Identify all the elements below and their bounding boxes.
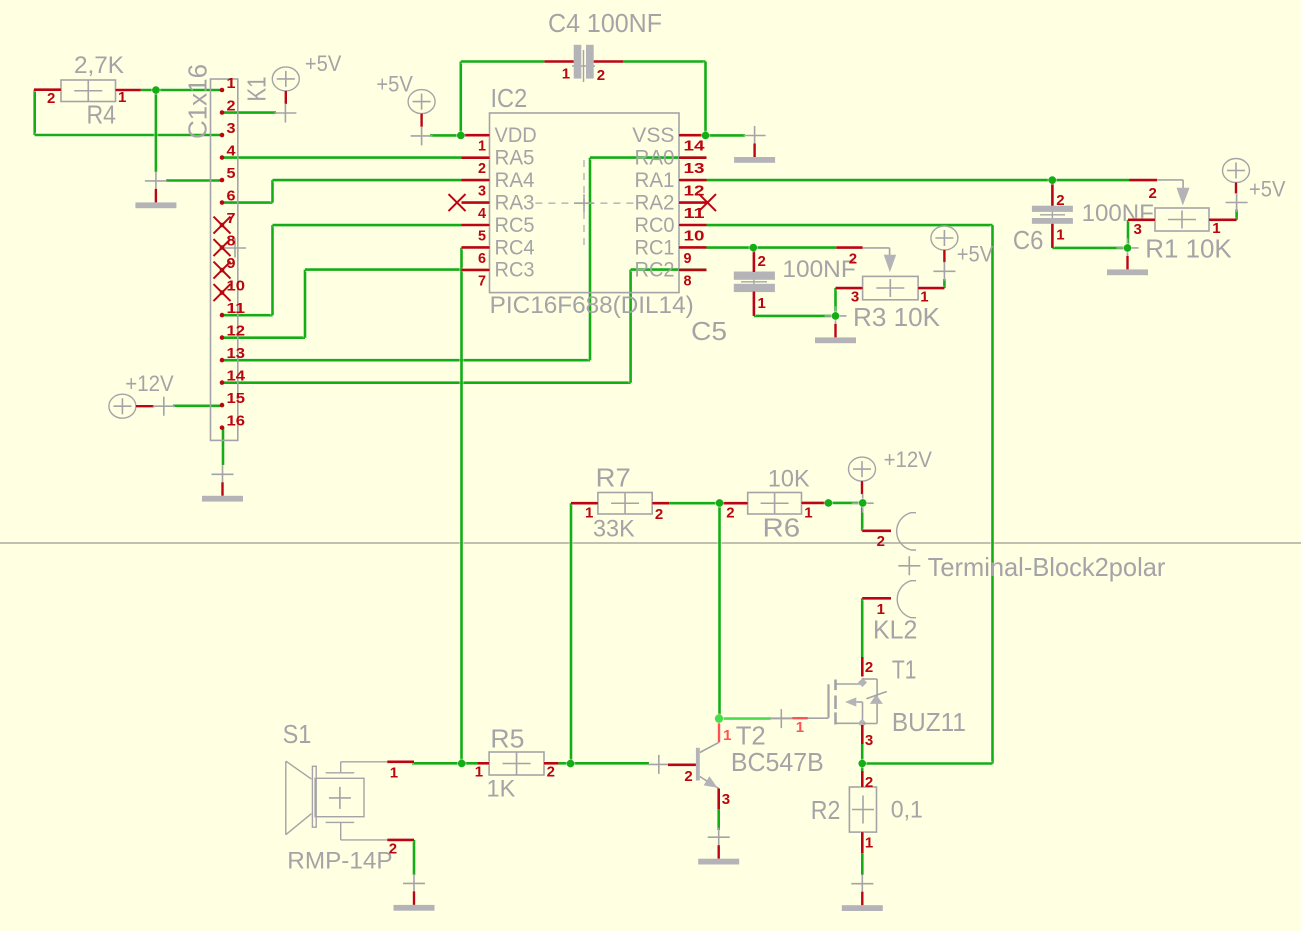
svg-text:9: 9 (684, 250, 692, 267)
IC2 left pin 7 RC3 (462, 259, 535, 290)
wire highlighted T1 gate net (719, 716, 771, 720)
svg-text:RC5: RC5 (495, 214, 535, 237)
junction T1 source/R2 (857, 759, 867, 769)
svg-text:2: 2 (47, 90, 55, 107)
wire RC1 to C5 and R3 wiper (707, 245, 837, 249)
svg-text:2: 2 (865, 659, 873, 676)
svg-text:0,1: 0,1 (891, 797, 923, 824)
svg-text:7: 7 (478, 272, 486, 289)
K1 pin 5 (220, 165, 236, 182)
svg-text:2: 2 (877, 533, 885, 550)
wire R3 pin1 to +5V (942, 279, 946, 288)
wire R7 pin1 down to R5 node (569, 503, 573, 763)
wire T1 source to node (860, 744, 864, 764)
svg-text:2,7K: 2,7K (74, 52, 124, 79)
svg-text:RC4: RC4 (495, 236, 535, 259)
svg-text:15: 15 (227, 390, 246, 407)
svg-text:VDD: VDD (495, 124, 537, 147)
svg-text:2: 2 (849, 251, 857, 268)
svg-text:+5V: +5V (376, 72, 413, 97)
svg-text:C4 100NF: C4 100NF (548, 8, 662, 38)
svg-text:RA5: RA5 (495, 146, 535, 169)
wire node to R2 pin2 (860, 764, 864, 772)
wire R3 pin3 to ground node (833, 288, 837, 316)
svg-text:1: 1 (562, 66, 570, 83)
junction VSS (701, 131, 711, 141)
svg-text:1: 1 (585, 505, 593, 522)
svg-text:6: 6 (227, 188, 236, 205)
wire K1 pin12 to RC3 (222, 270, 462, 338)
svg-text:+5V: +5V (957, 242, 994, 267)
junction R5/T2 (566, 759, 576, 769)
svg-text:4: 4 (478, 205, 487, 222)
svg-text:Terminal-Block2polar: Terminal-Block2polar (928, 552, 1166, 582)
svg-text:6: 6 (478, 250, 486, 267)
K1 pin 7 (214, 210, 236, 234)
svg-text:RMP-14P: RMP-14P (287, 848, 392, 875)
wire S1 pin2 to ground (412, 840, 416, 875)
svg-text:13: 13 (684, 160, 705, 177)
T1 gate pin highlighted (771, 717, 829, 719)
svg-text:1: 1 (758, 295, 766, 312)
wire VSS to ground (706, 133, 746, 137)
svg-text:2: 2 (389, 841, 397, 858)
ground GND at C5/R3 (815, 306, 856, 343)
speaker S1 RMP-14P (283, 719, 414, 874)
K1 pin 6 (220, 188, 236, 205)
trimmer R1 10K (1128, 180, 1237, 264)
transistor T1 BUZ11 (770, 654, 966, 749)
K1 pin 15 (220, 390, 245, 407)
ground GND at K1 pin16 (202, 465, 243, 502)
resistor R6 10K (722, 466, 827, 543)
svg-text:16: 16 (227, 413, 246, 430)
supply +5V at K1 pin2 (272, 51, 341, 123)
svg-text:1: 1 (475, 763, 483, 780)
IC2 left pin 5 RC5 (462, 214, 535, 245)
svg-text:+5V: +5V (305, 51, 342, 76)
junction C5/R3 ground (831, 311, 841, 321)
svg-text:PIC16F688(DIL14): PIC16F688(DIL14) (490, 292, 694, 319)
IC2 left pin 2 RA5 (462, 146, 535, 177)
IC2 right pin 9 RC1 (635, 236, 707, 267)
svg-text:RA0: RA0 (635, 146, 675, 169)
svg-text:R1 10K: R1 10K (1145, 234, 1232, 264)
svg-text:T2: T2 (736, 721, 766, 751)
svg-text:5: 5 (227, 165, 236, 182)
svg-text:+12V: +12V (125, 371, 174, 396)
K1 pin 13 (220, 345, 245, 362)
svg-text:KL2: KL2 (873, 615, 917, 645)
wire junction down to T1 gate node (717, 503, 721, 718)
svg-text:R2: R2 (811, 795, 841, 825)
svg-text:3: 3 (1134, 221, 1142, 238)
svg-text:4: 4 (227, 143, 237, 160)
svg-text:C5: C5 (691, 316, 727, 346)
K1 pin 1 (220, 75, 236, 92)
wire C6 pin1 to ground node (1052, 246, 1127, 250)
svg-text:33K: 33K (593, 515, 635, 542)
svg-text:1: 1 (1212, 220, 1220, 237)
svg-text:10K: 10K (768, 466, 810, 493)
IC2 right pin 13 RA0 (635, 146, 707, 177)
wire T2 emitter to ground (717, 809, 721, 830)
K1 pin 11 (220, 300, 245, 317)
svg-text:3: 3 (851, 289, 859, 306)
svg-text:RC3: RC3 (495, 259, 535, 282)
svg-text:IC2: IC2 (491, 83, 528, 113)
svg-text:RA4: RA4 (495, 169, 535, 192)
junction RA1/C6 (1048, 175, 1058, 185)
svg-text:100NF: 100NF (782, 256, 855, 283)
svg-text:R5: R5 (490, 723, 524, 753)
trimmer R3 10K (836, 248, 945, 332)
svg-text:10: 10 (684, 228, 705, 245)
svg-text:8: 8 (684, 272, 692, 289)
wire R4 pin1 to K1 pin1 (141, 88, 222, 92)
wire KL2 pin1 to T1 drain (860, 598, 864, 657)
wire K1 pin13 to RA0 (222, 158, 707, 361)
wire R4 pin2 to K1 pin3 (35, 90, 222, 135)
capacitor C6 100NF (1013, 180, 1154, 255)
svg-text:2: 2 (227, 98, 236, 115)
svg-text:1: 1 (227, 75, 236, 92)
svg-text:2: 2 (684, 768, 692, 785)
junction R4/K1 pin1 (151, 85, 161, 95)
wire K1 pin6 to RA4 (222, 180, 462, 203)
IC2 right pin 8 RC2 (635, 259, 707, 290)
svg-text:1: 1 (865, 835, 873, 852)
svg-text:C6: C6 (1013, 225, 1044, 255)
svg-text:3: 3 (227, 120, 236, 137)
wire K1 pin11 to RC5 (222, 225, 462, 315)
ic IC2 PIC16F688 (490, 83, 694, 319)
IC2 right pin 14 VSS (632, 124, 706, 155)
svg-text:RC0: RC0 (635, 214, 675, 237)
junction VDD (456, 131, 466, 141)
svg-text:3: 3 (865, 732, 873, 749)
supply +5V at IC2 VDD (376, 72, 435, 146)
capacitor C4 100NF (544, 8, 662, 84)
wire RA1 to R1 pin2 and C6 (707, 178, 1130, 182)
wire K1 pin16 to ground (221, 428, 225, 465)
svg-text:BUZ11: BUZ11 (892, 707, 966, 737)
wire R1 pin1 to +5V (1234, 210, 1238, 220)
svg-text:2: 2 (547, 763, 555, 780)
junction C6/R1 ground (1123, 243, 1133, 253)
IC2 right pin 12 RA1 (635, 169, 707, 200)
svg-text:RA3: RA3 (495, 191, 535, 214)
junction +12V/KL2 (858, 498, 868, 508)
svg-text:2: 2 (865, 774, 873, 791)
svg-text:RA1: RA1 (635, 169, 675, 192)
svg-text:1: 1 (478, 138, 486, 155)
svg-text:2: 2 (1056, 192, 1064, 209)
T2 collector pin highlighted (717, 723, 721, 743)
svg-text:1K: 1K (487, 776, 516, 803)
IC2 right pin 10 RC0 (635, 214, 707, 245)
wire R6 pin1 to +12V (827, 501, 863, 505)
svg-text:2: 2 (726, 505, 734, 522)
sheet divider line (0, 542, 1301, 544)
svg-text:2: 2 (758, 253, 766, 270)
svg-text:14: 14 (684, 138, 706, 155)
junction S1/R5/RC4 (457, 759, 467, 769)
svg-text:3: 3 (722, 791, 730, 808)
wire C4 pin1 to VDD (461, 62, 545, 136)
svg-text:BC547B: BC547B (731, 747, 824, 777)
junction R6/+12V wire (824, 498, 834, 508)
svg-text:1: 1 (877, 601, 885, 618)
wire K1 pin2 to +5V (222, 110, 276, 114)
svg-text:1: 1 (118, 89, 126, 106)
K1 pin 2 (220, 98, 236, 115)
svg-text:+12V: +12V (884, 447, 933, 472)
svg-text:2: 2 (597, 67, 605, 84)
svg-text:11: 11 (227, 300, 246, 317)
K1 pin 14 (220, 368, 246, 385)
svg-text:3: 3 (478, 183, 486, 200)
IC2 left pin 1 VDD (462, 124, 537, 155)
K1 pin 12 (220, 323, 245, 340)
wire R1 pin3 to ground node (1126, 220, 1130, 248)
transistor T2 BC547B (648, 721, 824, 810)
svg-text:S1: S1 (283, 719, 312, 749)
svg-text:13: 13 (227, 345, 246, 362)
junction RC1/C5 (749, 243, 759, 253)
resistor R5 1K (475, 723, 559, 802)
svg-text:C1x16: C1x16 (183, 64, 213, 139)
wire R2 pin1 to ground (860, 853, 864, 875)
wire R7 pin2 to R6 pin2 (669, 501, 722, 505)
IC2 right pin 11 RA2 (635, 191, 717, 222)
svg-text:R4: R4 (87, 99, 117, 129)
wire +12V to K1 pin15 (173, 404, 222, 408)
wire junction to ground and K1 pin5 (156, 90, 222, 181)
wire C5 pin1 to ground node (754, 314, 836, 318)
ground GND at VSS (734, 126, 775, 163)
IC2 left pin 4 RA3 (449, 191, 535, 222)
ground GND at S1 (394, 874, 435, 911)
svg-text:R7: R7 (596, 463, 631, 493)
IC2 left pin 3 RA4 (462, 169, 535, 200)
junction T1 gate highlighted (714, 713, 724, 723)
K1 pin 9 (214, 255, 236, 279)
resistor R2 0,1 (811, 771, 923, 853)
svg-text:RA2: RA2 (635, 191, 675, 214)
supply +12V at K1 pin15 (109, 371, 175, 418)
svg-text:100NF: 100NF (1082, 200, 1154, 227)
supply +5V at R1 (1223, 159, 1286, 213)
svg-text:5: 5 (478, 228, 486, 245)
wire +12V to KL2 pin2 (860, 503, 864, 531)
svg-text:14: 14 (227, 368, 246, 385)
capacitor C5 100NF (691, 248, 856, 346)
svg-text:1: 1 (1056, 227, 1064, 244)
svg-text:VSS: VSS (632, 124, 674, 147)
K1 pin 10 (214, 278, 246, 302)
svg-text:RC1: RC1 (635, 236, 675, 259)
K1 pin 4 (220, 143, 237, 160)
terminal block KL2 (862, 513, 1166, 645)
resistor R4 (34, 52, 141, 129)
svg-text:K1: K1 (242, 77, 272, 102)
svg-text:T1: T1 (892, 654, 917, 684)
svg-text:2: 2 (655, 506, 663, 523)
wire +5V to VDD (430, 133, 461, 137)
svg-text:2: 2 (1149, 185, 1157, 202)
wire speaker node row (412, 761, 649, 765)
supply +12V at R6 (849, 447, 933, 513)
svg-text:1: 1 (804, 505, 812, 522)
ground GND at C6/R1 (1107, 238, 1148, 275)
svg-text:12: 12 (227, 323, 246, 340)
svg-text:1: 1 (920, 289, 928, 306)
resistor R7 33K (571, 463, 669, 543)
junction R7/R6 (715, 498, 725, 508)
supply +5V at R3 (931, 226, 994, 281)
ground GND at T2 emitter (698, 828, 739, 865)
wire RC4 to speaker node (459, 248, 463, 764)
svg-text:R6: R6 (763, 512, 801, 542)
ground GND at R2 (842, 874, 883, 911)
K1 pin 3 (220, 120, 236, 137)
IC2 left pin 6 RC4 (462, 236, 535, 267)
svg-text:+5V: +5V (1249, 177, 1286, 202)
svg-text:RC2: RC2 (635, 259, 675, 282)
svg-text:1: 1 (796, 719, 804, 736)
K1 pin 16 (220, 413, 245, 430)
wire K1 pin4 to RA5 (222, 155, 462, 159)
wire C4 pin2 to VSS (623, 62, 706, 136)
svg-text:1: 1 (723, 727, 731, 744)
svg-text:R3 10K: R3 10K (853, 302, 941, 332)
connector K1 C1x16 (183, 64, 272, 440)
wire K1 pin14 to RC2 (222, 270, 707, 383)
svg-text:2: 2 (478, 160, 486, 177)
ground GND at R4/K1 (135, 171, 176, 208)
svg-text:1: 1 (390, 765, 398, 782)
K1 pin 8 (214, 233, 236, 257)
wire RC0 to T1 source node (707, 225, 993, 763)
